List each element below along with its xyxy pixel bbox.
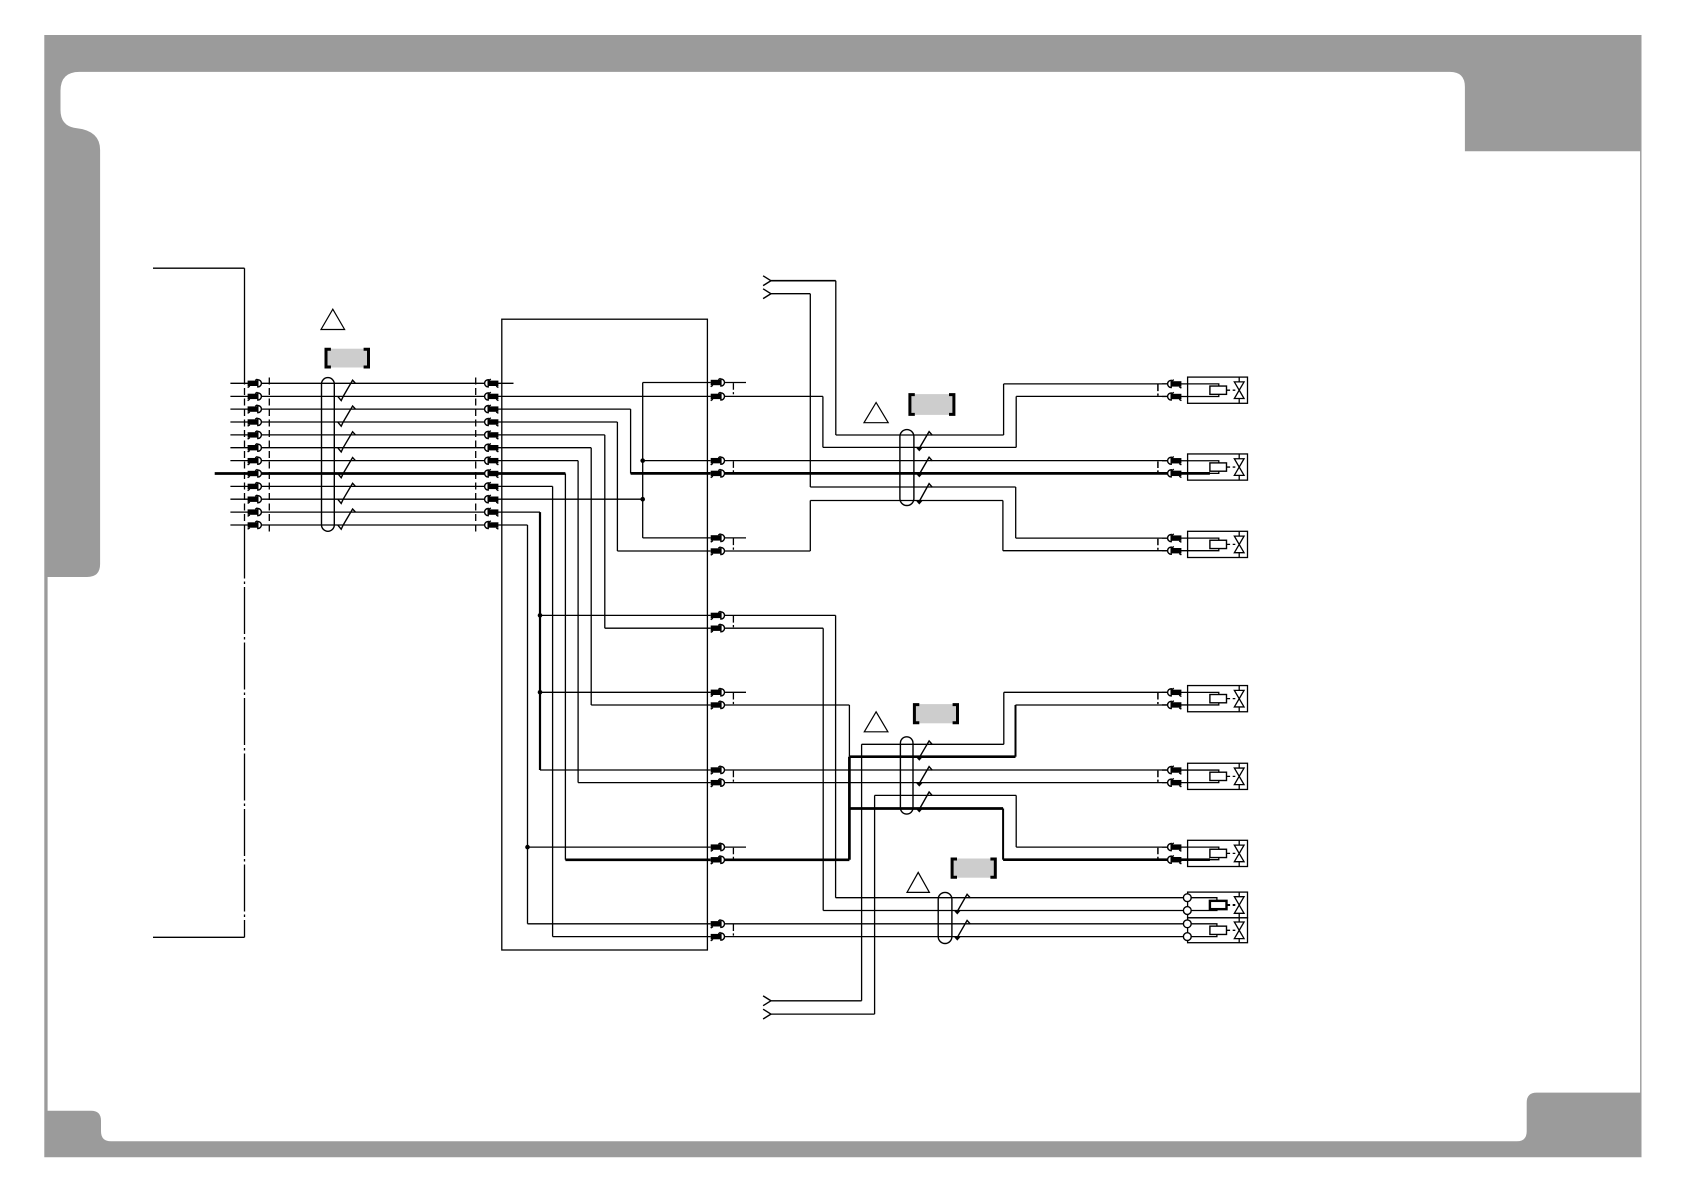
valve group 1 shield loop — [900, 430, 914, 506]
wire — [725, 627, 823, 629]
wire bold — [849, 755, 1015, 758]
twisted-pair slash — [954, 920, 970, 940]
water valve 3 pin 1 — [1168, 534, 1182, 542]
wire bold — [565, 858, 710, 861]
wire — [810, 500, 1003, 502]
water valve 6 pin 2 — [1168, 856, 1182, 864]
wire row 4 — [230, 421, 617, 423]
wire — [725, 550, 811, 552]
connector boundary dashed — [732, 383, 734, 397]
box output pin 13 — [711, 843, 725, 851]
warning triangle 3 — [864, 712, 888, 732]
wire — [771, 293, 810, 295]
wire row 8 — [215, 472, 566, 475]
wire — [835, 615, 837, 897]
wire — [725, 782, 1168, 784]
wire stub — [725, 846, 746, 848]
water valve 6 — [1158, 840, 1248, 866]
water valve 1 pin 2 — [1168, 392, 1182, 400]
wire — [630, 409, 632, 473]
valve terminal ring 1 — [1183, 894, 1191, 902]
box output pin 11 — [711, 766, 725, 774]
wire harness bracket bottom — [153, 936, 245, 938]
wire — [643, 537, 711, 539]
box output pin 9 — [711, 688, 725, 696]
wire — [836, 434, 1004, 436]
wire — [725, 769, 1168, 771]
water valve 1 pin 1 — [1168, 380, 1182, 388]
external supply arrow 2 — [763, 289, 771, 299]
twisted-pair slash — [338, 483, 355, 503]
water valve 2 pin 2 — [1168, 469, 1182, 477]
wire stub — [725, 691, 746, 693]
wire bold — [631, 472, 711, 475]
box connector pin 12 — [485, 521, 499, 529]
box output pin 14 — [711, 856, 725, 864]
wire — [604, 435, 606, 628]
left connector pin 2 — [248, 392, 262, 400]
water valve 4 pin 1 — [1168, 688, 1182, 696]
wire — [643, 460, 711, 462]
junction — [538, 690, 543, 695]
junction — [538, 613, 543, 618]
wire — [809, 294, 811, 487]
twisted-pair slash — [338, 432, 355, 452]
left connector pin 1 — [248, 379, 262, 387]
wire — [528, 923, 711, 925]
wire — [1003, 384, 1005, 435]
warning triangle 2 — [864, 403, 888, 423]
wire — [540, 614, 711, 616]
water valve 3 — [1158, 531, 1248, 557]
reference label 3 — [914, 704, 957, 723]
wire — [848, 705, 850, 757]
box output pin 3 — [711, 456, 725, 464]
wire row 6 — [230, 447, 591, 449]
wire — [771, 280, 836, 282]
wire — [1015, 487, 1017, 538]
external supply arrow 3 — [763, 996, 771, 1006]
wire — [725, 395, 823, 397]
twisted-pair slash — [916, 432, 932, 452]
wire — [1002, 809, 1004, 860]
wire — [823, 446, 1016, 448]
wire — [771, 1000, 862, 1002]
common bus wire bold — [539, 512, 541, 770]
left connector pin 10 — [248, 495, 262, 503]
left connector pin 4 — [248, 418, 262, 426]
box connector pin 11 — [485, 508, 499, 516]
left connector pin 9 — [248, 482, 262, 490]
wire row 12 — [230, 524, 527, 526]
box output pin 1 — [711, 378, 725, 386]
valve terminal ring 4 — [1183, 933, 1191, 941]
box connector pin 1 — [485, 379, 499, 387]
left connector pin 11 — [248, 508, 262, 516]
connector boundary dashed — [732, 848, 734, 860]
box connector pin 4 — [485, 418, 499, 426]
twisted-pair slash — [916, 457, 932, 477]
external supply arrow 4 — [763, 1009, 771, 1019]
wire — [616, 422, 618, 551]
left connector pin 8 — [248, 469, 262, 477]
wire — [564, 474, 566, 860]
warning triangle 4 — [907, 872, 929, 892]
connector boundary chain line — [244, 532, 246, 922]
connector boundary dashed — [268, 378, 270, 532]
wire — [1016, 846, 1167, 848]
wire — [540, 691, 711, 693]
valve terminal ring 2 — [1183, 907, 1191, 915]
connector boundary dashed — [475, 378, 477, 532]
wire row 9 — [230, 485, 552, 487]
box output pin 8 — [711, 624, 725, 632]
common bus wire — [527, 525, 529, 924]
box connector pin 9 — [485, 482, 499, 490]
wire — [725, 923, 1184, 925]
water valve 5 pin 2 — [1168, 778, 1182, 786]
wire — [590, 448, 592, 705]
wire — [1003, 692, 1005, 744]
wire — [540, 769, 711, 771]
left connector pin 6 — [248, 444, 262, 452]
connector boundary dashed — [244, 378, 246, 532]
valve terminal ring 3 — [1183, 920, 1191, 928]
box connector pin 10 — [485, 495, 499, 503]
wire — [1004, 691, 1168, 693]
wire — [875, 794, 1017, 796]
wire — [836, 897, 1184, 899]
wire row 1 — [230, 382, 513, 384]
box connector pin 8 — [485, 469, 499, 477]
box output pin 5 — [711, 534, 725, 542]
wire — [244, 268, 246, 377]
box output pin 10 — [711, 701, 725, 709]
wire row 7 — [230, 460, 578, 462]
junction — [640, 497, 645, 502]
wire — [810, 486, 1015, 488]
connector boundary dashed — [732, 616, 734, 628]
connector boundary dashed — [732, 771, 734, 783]
junction — [640, 458, 645, 463]
wire — [771, 1013, 875, 1015]
wire bold — [725, 858, 850, 861]
wire — [605, 627, 711, 629]
wire — [1015, 705, 1017, 757]
wire — [643, 382, 711, 384]
connector boundary dashed — [732, 924, 734, 936]
common bus wire — [642, 383, 644, 538]
wire — [617, 550, 710, 552]
controller PCB box — [502, 319, 708, 950]
reference label 1 — [326, 349, 369, 368]
wire row 11 — [230, 511, 540, 513]
wire — [591, 704, 711, 706]
double valve block — [1183, 892, 1247, 943]
twisted-pair slash — [916, 741, 932, 761]
twisted-pair slash — [338, 458, 355, 478]
connector boundary dashed — [732, 693, 734, 705]
water valve 3 pin 2 — [1168, 547, 1182, 555]
wire — [823, 910, 1183, 912]
water valve 2 pin 1 — [1168, 457, 1182, 465]
wire — [1016, 395, 1167, 397]
water valve 5 pin 1 — [1168, 766, 1182, 774]
wire — [244, 921, 246, 937]
box output pin 7 — [711, 611, 725, 619]
wire — [725, 460, 1168, 462]
wire — [578, 782, 711, 784]
connector boundary dashed — [732, 539, 734, 552]
external supply arrow 1 — [763, 276, 771, 286]
wire — [1016, 704, 1168, 706]
box output pin 6 — [711, 547, 725, 555]
twisted-pair slash — [338, 380, 355, 400]
water valve 5 — [1158, 763, 1248, 789]
box connector pin 3 — [485, 405, 499, 413]
wire — [874, 795, 876, 1014]
twisted-pair slash — [338, 509, 355, 529]
water valve 2 — [1158, 454, 1248, 480]
valve group 2 shield loop — [900, 737, 913, 814]
left connector pin 12 — [248, 521, 262, 529]
wire row 5 — [230, 434, 604, 436]
wire — [1016, 537, 1168, 539]
warning triangle 1 — [321, 309, 345, 329]
twisted-pair slash — [954, 894, 970, 914]
box output pin 4 — [711, 469, 725, 477]
wire — [528, 846, 711, 848]
twisted-pair slash — [916, 484, 932, 505]
wire — [1003, 550, 1168, 552]
wire — [725, 704, 850, 706]
harness shield loop — [322, 378, 335, 532]
wire row 2 — [230, 395, 710, 397]
wire bold — [725, 472, 1210, 475]
left connector pin 5 — [248, 431, 262, 439]
twisted-pair slash — [338, 406, 355, 426]
wire — [725, 936, 1184, 938]
twisted-pair slash — [916, 767, 932, 787]
box output pin 2 — [711, 392, 725, 400]
box connector pin 5 — [485, 431, 499, 439]
wire bold — [848, 757, 851, 860]
box connector pin 7 — [485, 456, 499, 464]
left connector pin 3 — [248, 405, 262, 413]
wire bold — [1003, 858, 1210, 861]
wire — [1002, 501, 1004, 551]
water valve 4 pin 2 — [1168, 701, 1182, 709]
wire — [861, 744, 863, 1001]
wire — [809, 501, 811, 552]
wire — [862, 743, 1004, 745]
reference label 4 — [952, 859, 995, 878]
wire row 3 — [230, 408, 630, 410]
box output pin 12 — [711, 778, 725, 786]
valve group 3 shield loop — [938, 892, 952, 943]
wire — [577, 461, 579, 783]
water valve 6 pin 1 — [1168, 843, 1182, 851]
wire — [822, 628, 824, 910]
connector boundary dashed — [732, 461, 734, 473]
wire stub — [725, 537, 746, 539]
water valve 1 — [1158, 377, 1248, 403]
left connector pin 7 — [248, 456, 262, 464]
box connector pin 6 — [485, 444, 499, 452]
wire — [1004, 383, 1168, 385]
twisted-pair slash — [916, 792, 932, 813]
box output pin 15 — [711, 920, 725, 928]
wire — [725, 614, 836, 616]
box connector pin 2 — [485, 392, 499, 400]
wire bold — [849, 807, 1003, 810]
water valve 4 — [1158, 686, 1248, 712]
wire — [1015, 795, 1017, 847]
junction — [525, 845, 530, 850]
wire — [553, 936, 711, 938]
box output pin 16 — [711, 932, 725, 940]
wire — [822, 396, 824, 447]
wire — [1015, 396, 1017, 447]
wire row 10 — [230, 498, 642, 500]
wire stub — [725, 382, 746, 384]
wire — [835, 281, 837, 435]
reference label 2 — [910, 394, 954, 415]
wire harness bracket top — [153, 267, 245, 269]
wire — [552, 486, 554, 936]
